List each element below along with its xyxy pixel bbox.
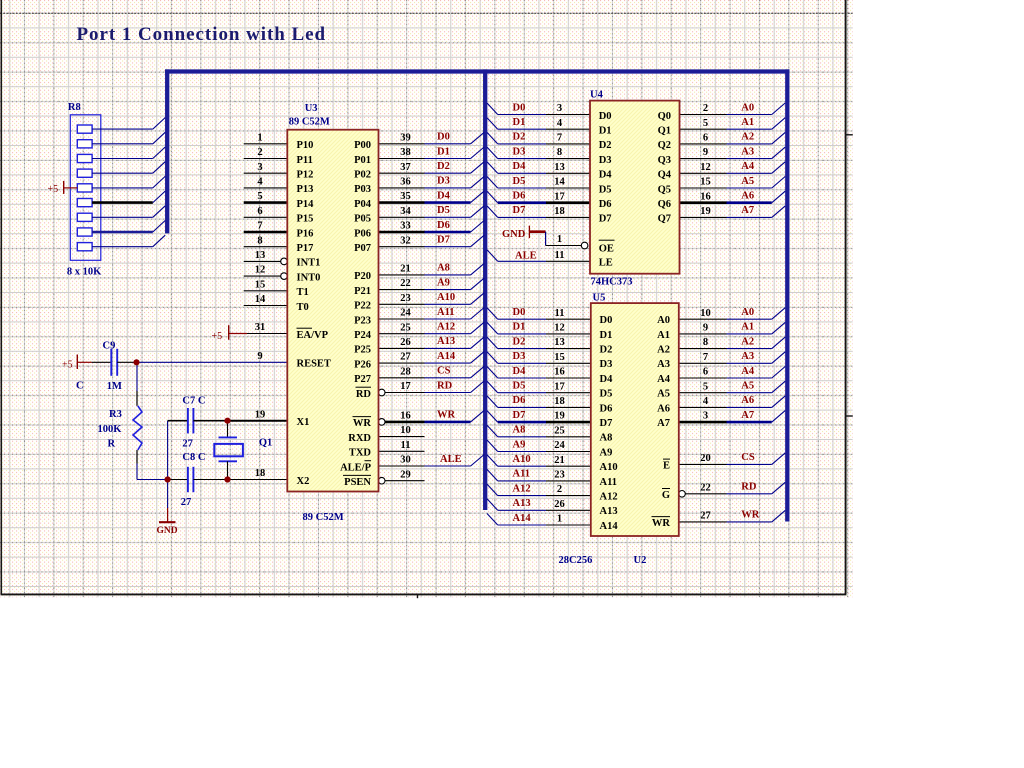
svg-text:A12: A12 <box>513 483 531 494</box>
svg-text:A9: A9 <box>513 439 526 450</box>
svg-text:A7: A7 <box>741 410 754 421</box>
svg-text:A10: A10 <box>600 462 618 473</box>
svg-text:TXD: TXD <box>349 448 372 459</box>
svg-text:U4: U4 <box>590 90 604 101</box>
svg-text:17: 17 <box>400 381 411 392</box>
svg-text:D3: D3 <box>437 176 450 187</box>
svg-text:EA/VP: EA/VP <box>297 330 329 341</box>
svg-text:A5: A5 <box>741 381 754 392</box>
svg-text:P25: P25 <box>354 345 371 356</box>
svg-text:9: 9 <box>703 323 708 334</box>
svg-text:C9: C9 <box>103 341 116 352</box>
svg-text:CS: CS <box>437 366 451 377</box>
svg-text:5: 5 <box>703 381 708 392</box>
svg-text:19: 19 <box>700 206 711 217</box>
svg-text:D7: D7 <box>600 418 613 429</box>
svg-text:GND: GND <box>157 526 178 536</box>
svg-text:INT1: INT1 <box>297 258 321 269</box>
svg-text:A9: A9 <box>437 277 450 288</box>
svg-text:+5: +5 <box>62 360 73 371</box>
svg-text:17: 17 <box>554 191 565 202</box>
svg-text:X1: X1 <box>297 417 310 428</box>
svg-text:27: 27 <box>700 511 711 522</box>
svg-text:R8: R8 <box>68 102 81 113</box>
svg-text:D1: D1 <box>600 330 613 341</box>
svg-text:13: 13 <box>554 337 565 348</box>
svg-text:16: 16 <box>554 367 565 378</box>
svg-text:A4: A4 <box>657 374 671 385</box>
svg-text:19: 19 <box>554 411 565 422</box>
svg-text:20: 20 <box>700 453 711 464</box>
svg-text:T0: T0 <box>297 302 309 313</box>
svg-text:6: 6 <box>257 206 262 217</box>
svg-text:OE: OE <box>599 244 614 255</box>
svg-text:25: 25 <box>554 425 565 436</box>
svg-text:A3: A3 <box>657 359 670 370</box>
svg-text:10: 10 <box>400 425 411 436</box>
svg-text:5: 5 <box>703 118 708 129</box>
svg-text:RD: RD <box>741 482 757 493</box>
svg-text:P03: P03 <box>354 184 371 195</box>
svg-text:A3: A3 <box>741 146 754 157</box>
svg-text:6: 6 <box>703 367 708 378</box>
svg-text:16: 16 <box>700 191 711 202</box>
svg-text:A13: A13 <box>600 506 618 517</box>
svg-text:A0: A0 <box>657 315 670 326</box>
svg-text:A2: A2 <box>741 132 754 143</box>
svg-text:P10: P10 <box>297 140 314 151</box>
svg-text:CS: CS <box>741 452 755 463</box>
svg-text:A11: A11 <box>513 469 531 480</box>
svg-text:13: 13 <box>554 162 565 173</box>
svg-text:A2: A2 <box>657 345 670 356</box>
svg-text:28: 28 <box>400 366 411 377</box>
svg-text:4: 4 <box>257 177 263 188</box>
svg-text:35: 35 <box>400 191 411 202</box>
svg-text:12: 12 <box>554 323 565 334</box>
svg-text:D1: D1 <box>437 146 450 157</box>
svg-text:1: 1 <box>557 234 562 245</box>
svg-text:A7: A7 <box>657 418 670 429</box>
svg-text:16: 16 <box>400 411 411 422</box>
svg-text:R3: R3 <box>109 409 122 420</box>
svg-text:A8: A8 <box>437 263 450 274</box>
svg-text:A5: A5 <box>741 176 754 187</box>
svg-text:T1: T1 <box>297 287 309 298</box>
svg-text:28C256: 28C256 <box>559 555 593 566</box>
svg-text:D7: D7 <box>437 235 450 246</box>
svg-text:D4: D4 <box>437 190 451 201</box>
svg-text:WR: WR <box>437 410 456 421</box>
svg-text:P12: P12 <box>297 170 314 181</box>
svg-text:32: 32 <box>400 235 411 246</box>
svg-text:D1: D1 <box>599 126 612 137</box>
svg-text:A7: A7 <box>741 205 754 216</box>
svg-text:23: 23 <box>400 293 411 304</box>
svg-text:P17: P17 <box>297 243 314 254</box>
svg-text:D2: D2 <box>513 336 526 347</box>
svg-text:A11: A11 <box>437 307 455 318</box>
svg-text:27: 27 <box>181 497 192 508</box>
svg-text:E: E <box>663 461 670 472</box>
svg-text:D3: D3 <box>599 155 612 166</box>
svg-text:A0: A0 <box>741 102 754 113</box>
svg-text:D5: D5 <box>513 176 526 187</box>
svg-text:1M: 1M <box>107 381 122 392</box>
svg-text:P01: P01 <box>354 155 371 166</box>
svg-text:25: 25 <box>400 322 411 333</box>
svg-text:D7: D7 <box>599 214 612 225</box>
svg-text:23: 23 <box>554 470 565 481</box>
svg-text:27: 27 <box>182 439 193 450</box>
svg-text:D0: D0 <box>437 132 450 143</box>
svg-text:A1: A1 <box>657 330 670 341</box>
svg-text:8: 8 <box>557 147 562 158</box>
svg-text:5: 5 <box>257 191 262 202</box>
svg-text:89 C52M: 89 C52M <box>289 117 330 128</box>
svg-text:WR: WR <box>741 510 760 521</box>
svg-text:18: 18 <box>255 468 266 479</box>
svg-text:D2: D2 <box>437 161 450 172</box>
svg-text:D2: D2 <box>599 140 612 151</box>
svg-text:A6: A6 <box>741 191 754 202</box>
svg-text:D4: D4 <box>599 170 613 181</box>
svg-text:X2: X2 <box>297 476 310 487</box>
svg-text:P26: P26 <box>354 359 371 370</box>
svg-text:18: 18 <box>554 396 565 407</box>
svg-text:D5: D5 <box>513 381 526 392</box>
svg-text:A2: A2 <box>741 336 754 347</box>
svg-text:A1: A1 <box>741 322 754 333</box>
svg-text:2: 2 <box>257 147 262 158</box>
svg-text:33: 33 <box>400 221 411 232</box>
svg-text:7: 7 <box>257 221 262 232</box>
svg-text:P11: P11 <box>297 155 313 166</box>
svg-text:Q5: Q5 <box>658 184 671 195</box>
svg-text:22: 22 <box>400 278 411 289</box>
svg-text:A4: A4 <box>741 161 755 172</box>
svg-text:24: 24 <box>554 440 565 451</box>
svg-text:D4: D4 <box>600 374 614 385</box>
svg-text:P24: P24 <box>354 330 372 341</box>
svg-text:D6: D6 <box>600 403 613 414</box>
svg-text:D3: D3 <box>513 351 526 362</box>
svg-text:P02: P02 <box>354 170 371 181</box>
svg-text:21: 21 <box>400 264 411 275</box>
svg-text:A6: A6 <box>657 403 670 414</box>
svg-text:29: 29 <box>400 469 411 480</box>
svg-text:P16: P16 <box>297 228 314 239</box>
svg-text:RD: RD <box>356 389 372 400</box>
svg-text:PSEN: PSEN <box>344 477 371 488</box>
svg-text:+5: +5 <box>48 184 59 195</box>
svg-text:12: 12 <box>700 162 711 173</box>
svg-text:74HC373: 74HC373 <box>591 277 633 288</box>
svg-text:D2: D2 <box>513 132 526 143</box>
svg-text:D0: D0 <box>513 102 526 113</box>
svg-text:15: 15 <box>700 177 711 188</box>
svg-text:D7: D7 <box>513 205 526 216</box>
svg-text:C7 C: C7 C <box>182 396 205 407</box>
svg-text:21: 21 <box>554 455 565 466</box>
svg-text:RXD: RXD <box>348 433 371 444</box>
svg-text:D7: D7 <box>513 410 526 421</box>
svg-text:A12: A12 <box>437 322 455 333</box>
svg-text:9: 9 <box>257 351 262 362</box>
svg-text:U3: U3 <box>305 103 318 114</box>
svg-text:Q4: Q4 <box>658 170 672 181</box>
svg-text:17: 17 <box>554 381 565 392</box>
svg-text:D6: D6 <box>513 191 526 202</box>
svg-text:INT0: INT0 <box>297 272 321 283</box>
svg-text:D2: D2 <box>600 345 613 356</box>
svg-text:A13: A13 <box>513 498 531 509</box>
svg-text:37: 37 <box>400 162 411 173</box>
svg-text:27: 27 <box>400 352 411 363</box>
svg-text:C8 C: C8 C <box>182 452 205 463</box>
svg-text:A12: A12 <box>600 492 618 503</box>
svg-text:R: R <box>108 439 116 450</box>
svg-text:Q7: Q7 <box>658 214 671 225</box>
svg-text:Q1: Q1 <box>658 126 671 137</box>
svg-text:ALE/P: ALE/P <box>340 462 372 473</box>
svg-text:11: 11 <box>555 250 565 261</box>
svg-text:U2: U2 <box>634 555 647 566</box>
svg-text:14: 14 <box>554 177 565 188</box>
svg-text:A4: A4 <box>741 366 755 377</box>
svg-text:31: 31 <box>255 322 266 333</box>
svg-text:89 C52M: 89 C52M <box>303 512 344 523</box>
svg-text:3: 3 <box>557 103 562 114</box>
svg-text:A1: A1 <box>741 117 754 128</box>
svg-text:15: 15 <box>554 352 565 363</box>
svg-text:P14: P14 <box>297 199 315 210</box>
svg-text:+5: +5 <box>212 331 223 342</box>
svg-text:10: 10 <box>700 308 711 319</box>
svg-text:P06: P06 <box>354 228 371 239</box>
svg-text:D6: D6 <box>513 395 526 406</box>
svg-text:Q1: Q1 <box>259 438 272 449</box>
svg-text:A10: A10 <box>437 292 455 303</box>
svg-text:A13: A13 <box>437 336 455 347</box>
svg-text:22: 22 <box>700 482 711 493</box>
svg-text:100K: 100K <box>98 424 123 435</box>
svg-text:14: 14 <box>255 294 266 305</box>
svg-text:LE: LE <box>599 258 613 269</box>
svg-text:D3: D3 <box>513 146 526 157</box>
svg-text:39: 39 <box>400 132 411 143</box>
svg-text:A6: A6 <box>741 395 754 406</box>
svg-text:26: 26 <box>554 499 565 510</box>
svg-text:A11: A11 <box>600 477 618 488</box>
svg-text:8: 8 <box>257 235 262 246</box>
svg-text:A8: A8 <box>600 433 613 444</box>
svg-text:GND: GND <box>502 229 526 240</box>
svg-text:RESET: RESET <box>297 359 331 370</box>
svg-text:P13: P13 <box>297 184 314 195</box>
svg-text:D4: D4 <box>513 366 527 377</box>
svg-text:4: 4 <box>703 396 709 407</box>
svg-text:A14: A14 <box>437 351 456 362</box>
svg-text:D0: D0 <box>513 307 526 318</box>
svg-text:2: 2 <box>557 484 562 495</box>
svg-text:30: 30 <box>400 455 411 466</box>
svg-text:3: 3 <box>257 162 262 173</box>
svg-text:38: 38 <box>400 147 411 158</box>
svg-text:D6: D6 <box>599 199 612 210</box>
svg-text:Q6: Q6 <box>658 199 671 210</box>
svg-text:P22: P22 <box>354 301 371 312</box>
svg-text:7: 7 <box>703 352 708 363</box>
svg-text:U5: U5 <box>593 293 606 304</box>
svg-text:8 x 10K: 8 x 10K <box>67 267 102 278</box>
svg-text:P20: P20 <box>354 271 371 282</box>
svg-text:15: 15 <box>255 279 266 290</box>
svg-text:D4: D4 <box>513 161 527 172</box>
svg-text:2: 2 <box>703 103 708 114</box>
svg-text:D6: D6 <box>437 220 450 231</box>
svg-text:36: 36 <box>400 177 411 188</box>
svg-text:P00: P00 <box>354 140 371 151</box>
svg-text:13: 13 <box>255 250 266 261</box>
svg-text:Port 1 Connection with Led: Port 1 Connection with Led <box>77 24 327 45</box>
svg-text:ALE: ALE <box>515 250 537 261</box>
svg-text:Q3: Q3 <box>658 155 671 166</box>
svg-text:A8: A8 <box>513 425 526 436</box>
svg-text:P23: P23 <box>354 315 371 326</box>
svg-text:Q2: Q2 <box>658 140 671 151</box>
svg-text:4: 4 <box>557 118 563 129</box>
svg-text:A0: A0 <box>741 307 754 318</box>
svg-text:D1: D1 <box>513 322 526 333</box>
svg-text:WR: WR <box>353 418 372 429</box>
svg-text:D0: D0 <box>600 315 613 326</box>
svg-text:11: 11 <box>401 440 411 451</box>
svg-text:D5: D5 <box>599 184 612 195</box>
svg-text:A3: A3 <box>741 351 754 362</box>
svg-text:P07: P07 <box>354 243 371 254</box>
svg-text:P04: P04 <box>354 199 372 210</box>
svg-text:P15: P15 <box>297 214 314 225</box>
svg-text:24: 24 <box>400 308 411 319</box>
svg-text:6: 6 <box>703 133 708 144</box>
svg-text:11: 11 <box>555 308 565 319</box>
svg-text:26: 26 <box>400 337 411 348</box>
svg-text:G: G <box>662 490 670 501</box>
svg-text:9: 9 <box>703 147 708 158</box>
svg-text:D0: D0 <box>599 111 612 122</box>
svg-text:D3: D3 <box>600 359 613 370</box>
svg-text:Q0: Q0 <box>658 111 671 122</box>
svg-text:1: 1 <box>557 514 562 525</box>
svg-text:D5: D5 <box>437 205 450 216</box>
svg-text:12: 12 <box>255 265 266 276</box>
svg-text:A14: A14 <box>513 513 532 524</box>
svg-text:C: C <box>76 381 84 392</box>
svg-text:D1: D1 <box>513 117 526 128</box>
svg-text:19: 19 <box>255 409 266 420</box>
svg-text:3: 3 <box>703 411 708 422</box>
svg-text:WR: WR <box>652 518 671 529</box>
svg-text:34: 34 <box>400 206 411 217</box>
svg-text:1: 1 <box>257 132 262 143</box>
svg-text:P27: P27 <box>354 374 371 385</box>
svg-text:8: 8 <box>703 337 708 348</box>
svg-text:A5: A5 <box>657 389 670 400</box>
svg-text:P05: P05 <box>354 214 371 225</box>
svg-text:P21: P21 <box>354 286 371 297</box>
svg-text:A9: A9 <box>600 447 613 458</box>
svg-text:D5: D5 <box>600 389 613 400</box>
svg-text:ALE: ALE <box>440 454 462 465</box>
svg-text:A14: A14 <box>600 521 619 532</box>
svg-text:RD: RD <box>437 380 453 391</box>
svg-text:7: 7 <box>557 133 562 144</box>
svg-text:A10: A10 <box>513 454 531 465</box>
svg-text:18: 18 <box>554 206 565 217</box>
